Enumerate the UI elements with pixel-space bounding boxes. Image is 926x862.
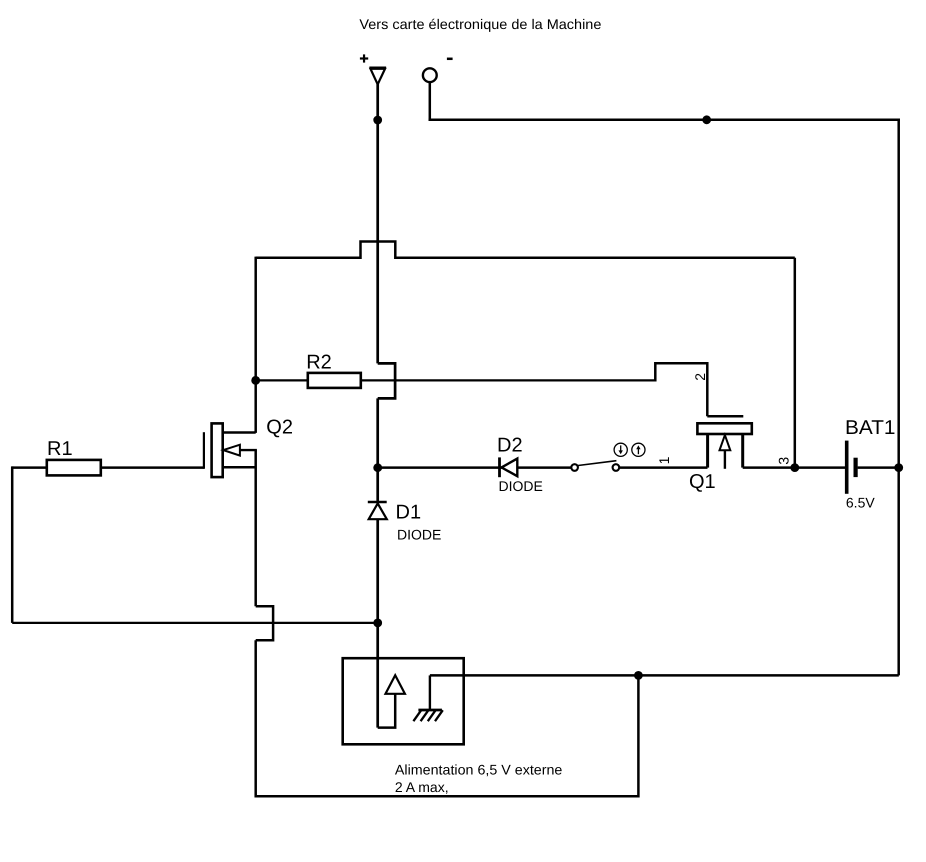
- svg-text:D2: D2: [497, 435, 523, 457]
- svg-text:2: 2: [692, 373, 708, 381]
- svg-text:R2: R2: [306, 352, 332, 374]
- svg-text:R1: R1: [47, 438, 73, 460]
- svg-text:Q2: Q2: [266, 417, 293, 439]
- svg-text:Alimentation 6,5 V externe: Alimentation 6,5 V externe: [395, 761, 563, 777]
- svg-text:6.5V: 6.5V: [846, 495, 875, 511]
- svg-text:BAT1: BAT1: [845, 417, 896, 439]
- svg-text:1: 1: [656, 456, 672, 464]
- svg-text:Vers carte électronique de la: Vers carte électronique de la Machine: [359, 16, 601, 32]
- svg-text:DIODE: DIODE: [397, 526, 441, 542]
- svg-text:DIODE: DIODE: [499, 478, 543, 494]
- svg-text:3: 3: [776, 457, 792, 465]
- svg-text:D1: D1: [396, 502, 422, 524]
- svg-text:2 A max,: 2 A max,: [395, 779, 449, 795]
- svg-text:Q1: Q1: [689, 471, 716, 493]
